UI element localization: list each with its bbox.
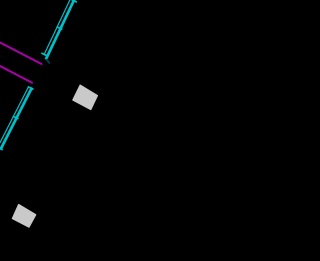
road (magenta) upper	[0, 43, 42, 65]
railway segment 1: thick rail	[46, 0, 76, 60]
railway segment 1: ties	[41, 0, 77, 56]
railway hidden bend fragment (dim)	[46, 59, 50, 63]
railway segment 1: thin rail	[44, 0, 71, 55]
building 2	[13, 205, 36, 227]
railway segment 2: ties	[0, 87, 33, 150]
building 1	[73, 85, 97, 109]
road (magenta) lower	[0, 66, 32, 83]
railway segment 2: thick rail	[1, 88, 33, 150]
railway segment 2: thin rail	[0, 87, 29, 153]
